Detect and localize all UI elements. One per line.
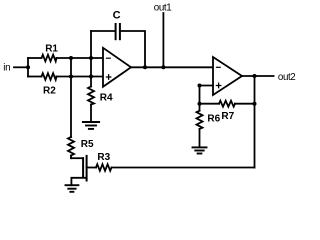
node junction R7-left/R6 xyxy=(198,102,202,106)
wire input split vertical xyxy=(27,58,29,77)
wire feedback left segment xyxy=(91,30,115,32)
node junction out2 xyxy=(253,74,257,78)
node junction plus input xyxy=(89,75,93,79)
wire op-amp1 output to op-amp2 xyxy=(131,66,213,68)
wire vertical joining feedback, inputs, down to R4 xyxy=(90,31,92,87)
wire op-amp2 plus input xyxy=(200,86,214,104)
svg-text:out2: out2 xyxy=(278,72,295,83)
node junction R1-out / R5 branch xyxy=(69,56,73,60)
node junction in xyxy=(26,65,30,69)
resistor R6 xyxy=(197,104,221,146)
svg-text:out1: out1 xyxy=(154,2,171,13)
node junction minus input xyxy=(89,56,93,60)
svg-text:C: C xyxy=(113,10,121,22)
ground (R6) xyxy=(193,147,207,153)
resistor R3 xyxy=(96,152,112,171)
node out1 xyxy=(154,2,171,67)
wire feedback right segment xyxy=(121,31,145,67)
resistor R1 xyxy=(28,43,103,61)
svg-text:R1: R1 xyxy=(45,43,58,54)
node junction plus2 corner xyxy=(198,84,202,88)
node junction out1 xyxy=(161,65,165,69)
op-amp U1 xyxy=(103,48,131,87)
svg-text:R4: R4 xyxy=(100,93,113,104)
ground (transistor source) xyxy=(66,185,79,192)
svg-text:R6: R6 xyxy=(207,114,220,125)
wire out2 vertical down to bottom return xyxy=(254,76,256,168)
node in label xyxy=(3,63,10,74)
svg-text:R7: R7 xyxy=(221,111,234,122)
svg-text:R3: R3 xyxy=(97,152,110,163)
node junction R2-out / R5 branch xyxy=(69,75,73,79)
svg-text:R5: R5 xyxy=(81,139,94,150)
wire vertical joining R1/R2 outputs down to R5 xyxy=(70,58,72,137)
node junction feedback/output xyxy=(143,65,147,69)
op-amp U2 xyxy=(213,57,242,95)
wire input lead xyxy=(14,66,28,68)
capacitor C xyxy=(113,10,121,40)
wire bottom return xyxy=(112,167,255,169)
resistor R5 xyxy=(68,137,94,158)
resistor R2 xyxy=(28,73,103,96)
node junction R7-right xyxy=(253,102,257,106)
svg-text:in: in xyxy=(3,63,10,74)
ground (R4) xyxy=(83,122,99,129)
resistor R4 xyxy=(88,87,113,121)
node out2 xyxy=(242,72,295,83)
svg-text:R2: R2 xyxy=(43,86,56,97)
transistor Q1 xyxy=(71,156,96,185)
resistor R7 xyxy=(200,101,255,123)
